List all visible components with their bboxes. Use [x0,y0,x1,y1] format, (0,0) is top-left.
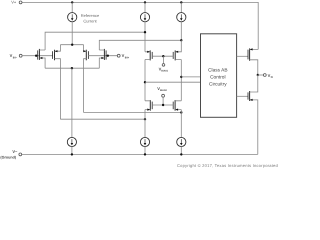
transistor Q3 (diff pair right PMOS) [83,45,88,113]
svg-text:Control: Control [210,74,225,80]
current sink I4 [67,137,76,146]
wire: VBIAS1 stub [162,56,164,63]
svg-text:Circuitry: Circuitry [209,81,227,87]
wire: down to current sink I4 [71,68,73,137]
wire: VIN- input to gates [22,55,53,57]
wire: I4 to V- rail [71,147,73,155]
node: right cascode output [180,76,182,78]
svg-text:Class AB: Class AB [208,67,227,73]
wire: Q8 source down to I6 [180,110,182,138]
wire: right cascode column Q6 drain to Q8 drain [180,60,182,101]
wire: I6 to V- rail [180,147,182,155]
transistor Q10 (output NMOS) [248,75,258,154]
svg-text:Current: Current [83,18,97,23]
svg-text:Copyright © 2017, Texas Instru: Copyright © 2017, Texas Instruments Inco… [177,163,279,168]
svg-text:V−: V− [12,149,18,154]
VO terminal [263,74,266,77]
wire: Q3 drain fold to right cascode column [84,112,182,114]
transistor Q1 (input device, VIN- side) [38,49,45,68]
svg-text:V+: V+ [11,0,17,4]
wire: VBIAS1 gate line [152,55,173,57]
node: common source tap [71,67,73,69]
node: VIN+ gate junction [107,55,109,57]
wire: VBIAS2 gate line [152,104,173,106]
node: rail junction for cascode current source right [180,1,182,3]
VBIAS2 terminal [162,94,165,97]
wire: box to output PMOS gate [237,55,248,57]
node: VIN- gate junction [35,55,37,57]
wire: diff pair tail [60,44,83,46]
node: right fold junction [180,111,182,113]
svg-text:BIAS1: BIAS1 [161,69,168,72]
node: rail junction for reference current [71,1,73,3]
V- rail [22,153,258,155]
node: I4 rail junction [71,153,73,155]
wire: Q7 source down to I5 [144,110,146,138]
node: I5 rail junction [144,153,146,155]
transistor Q8 (NMOS cascode right, VBIAS2) [173,100,181,111]
svg-text:IN+: IN+ [125,55,130,59]
current source I2 (left cascode leg) [140,13,149,22]
node A: Q1 drain joins I2 column [144,31,146,33]
current sink I6 [177,137,186,146]
wire: I5 to V- rail [144,147,146,155]
wire: VBIAS2 stub [162,97,164,105]
wire: V+ rail to reference current source [71,2,73,12]
wire: right cascode output to class AB box [181,76,200,78]
wire: I2 down to cascode Q5 source [144,22,146,52]
V+ terminal [19,1,22,4]
class AB control box U1 [201,34,237,118]
node: I6 rail junction [180,153,182,155]
VIN+ terminal [117,54,120,57]
transistor Q6 (PMOS cascode right, VBIAS1) [173,40,181,60]
wire: box to output NMOS gate [237,95,248,97]
wire: I3 down to node B [180,22,182,41]
svg-text:(Ground): (Ground) [0,156,17,160]
node: tail junction [71,44,73,46]
node: left cascode output [144,81,146,83]
V- terminal [19,153,22,156]
node: VBIAS1 gate junction [162,55,164,57]
svg-text:IN−: IN− [13,55,18,59]
current source I1 (Reference Current) [68,13,77,22]
wire: output stub [258,74,264,76]
node: VBIAS2 gate junction [162,104,164,106]
wire: Q4 drain up to node B (line B) [99,40,181,50]
V+ rail [22,2,258,49]
current sink I5 [140,137,149,146]
VIN- terminal [19,54,22,57]
wire: common source line of Q1/Q4 [45,67,99,69]
wire: left cascode column Q5 drain to Q7 drain [144,60,146,101]
svg-text:BIAS2: BIAS2 [160,89,167,92]
wire: reference current source to diff pair tail [71,22,73,45]
node B: Q4 drain joins I3 column [180,39,182,41]
node: rail junction for cascode current source left [144,1,146,3]
node: output [257,74,259,76]
wire: Q2 drain fold to left cascode column [60,118,145,120]
VBIAS1 terminal [162,64,165,67]
wire: VIN+ input to gates [88,55,117,57]
wire: Q1 drain up to node A (line A) [45,32,145,50]
transistor Q7 (NMOS cascode left, VBIAS2) [145,100,152,111]
transistor Q4 (input device, VIN+ side) [99,49,106,68]
transistor Q9 (output PMOS) [248,48,258,75]
current source I3 (right cascode leg) [177,13,186,22]
wire: V+ rail to current source I3 [180,2,182,12]
svg-text:Reference: Reference [81,13,100,18]
transistor Q2 (diff pair left PMOS) [53,45,61,120]
node: left fold junction [144,118,146,120]
wire: V+ rail to current source I2 [144,2,146,12]
transistor Q5 (PMOS cascode left, VBIAS1) [145,50,152,60]
wire: left cascode output to class AB box [145,81,201,83]
